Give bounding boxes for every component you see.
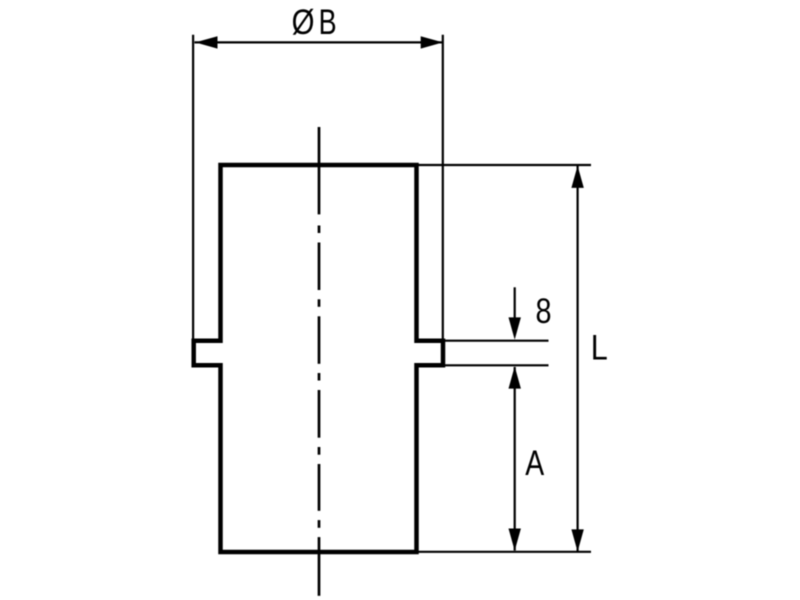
dimension OB label bbox=[292, 3, 337, 42]
step extension line top (tab top) bbox=[443, 340, 549, 342]
step extension line bottom (tab bottom) bbox=[443, 364, 549, 366]
dimension 8 leader line bbox=[514, 287, 516, 319]
svg-text:8: 8 bbox=[535, 291, 551, 330]
dimension OB arrow right bbox=[421, 36, 443, 48]
centerline (vertical dash-dot axis) bbox=[318, 127, 321, 596]
dimension 8 arrow (down) bbox=[509, 317, 521, 339]
body outline (stepped cylinder profile) bbox=[194, 165, 443, 552]
svg-text:A: A bbox=[525, 443, 545, 483]
dimension L line bbox=[576, 166, 578, 551]
svg-text:B: B bbox=[319, 3, 337, 42]
dimension A arrow bottom bbox=[509, 529, 521, 551]
dimension L arrow bottom bbox=[571, 529, 583, 551]
dimension L label bbox=[591, 328, 608, 367]
dimension A arrow top bbox=[509, 366, 521, 388]
dimension L arrow top bbox=[571, 166, 583, 188]
dimension 8 label bbox=[535, 291, 551, 330]
dimension L extension line top bbox=[418, 164, 591, 166]
dimension OB extension line left bbox=[192, 35, 194, 339]
dimension A label bbox=[525, 443, 545, 483]
svg-text:Ø: Ø bbox=[292, 3, 315, 42]
dimension OB extension line right bbox=[442, 35, 444, 339]
dimension OB arrow left bbox=[195, 36, 217, 48]
dimension OB line bbox=[195, 41, 443, 43]
dimension A line bbox=[514, 367, 516, 551]
svg-text:L: L bbox=[591, 328, 608, 367]
dimension L extension line bottom bbox=[418, 551, 591, 553]
